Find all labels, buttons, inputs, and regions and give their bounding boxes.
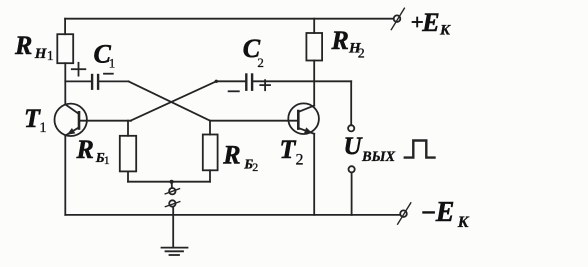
capacitor C1 <box>92 75 98 89</box>
node C2 bend junction <box>215 80 218 83</box>
resistor RH1 <box>57 34 73 63</box>
svg-text:2: 2 <box>358 46 365 61</box>
wire R_B2 bottom lead <box>209 170 211 181</box>
svg-text:2: 2 <box>296 152 304 169</box>
svg-text:1: 1 <box>109 55 116 70</box>
label RB2 <box>222 141 258 174</box>
transistor T1 <box>54 104 86 136</box>
wire T2 emitter down to bottom rail <box>313 134 315 215</box>
svg-text:2: 2 <box>257 55 264 70</box>
C2 polarity minus <box>229 90 239 92</box>
svg-text:K: K <box>439 23 451 39</box>
wire output lower terminal to bottom rail <box>351 173 353 215</box>
wire bias bar <box>128 181 210 183</box>
svg-text:U: U <box>344 133 364 160</box>
node bias junction <box>170 180 174 184</box>
svg-text:R: R <box>331 26 349 55</box>
svg-text:E: E <box>435 197 455 228</box>
C2 polarity plus <box>260 80 270 90</box>
label U out <box>344 133 396 165</box>
svg-text:R: R <box>14 31 32 60</box>
svg-text:K: K <box>457 214 470 231</box>
label RH2 <box>331 26 365 61</box>
label -Ek <box>421 197 470 231</box>
terminal output lower <box>349 166 355 172</box>
wire diagonal C1 to T2 base <box>129 81 210 120</box>
wire C1 right lead <box>99 80 128 82</box>
label T1 <box>24 104 47 136</box>
wire bias tap down <box>171 182 173 188</box>
terminal -Ek <box>400 210 407 217</box>
label RH1 <box>14 31 54 64</box>
wire C1 left lead <box>65 80 91 82</box>
transistor T2 <box>288 103 319 134</box>
pulse waveform icon <box>405 141 435 158</box>
wire R_B2 top lead <box>209 121 211 135</box>
svg-text:2: 2 <box>252 160 258 174</box>
wire R_H1 top lead <box>64 19 66 35</box>
label C1 <box>94 39 116 70</box>
capacitor C2 <box>246 75 252 90</box>
wire base rail right to T2 <box>210 120 298 122</box>
svg-text:R: R <box>222 141 240 170</box>
wire C2 left lead <box>216 80 245 82</box>
svg-text:R: R <box>76 135 94 164</box>
label C2 <box>243 34 264 70</box>
resistor RH2 <box>306 33 322 61</box>
terminal +Ek <box>394 15 401 22</box>
wire top +Ek rail <box>65 18 393 20</box>
C1 polarity minus <box>104 73 113 75</box>
wire diagonal C2 to T1 base <box>131 81 217 120</box>
label +Ek <box>413 8 451 39</box>
svg-text:T: T <box>280 135 297 164</box>
svg-text:1: 1 <box>104 153 110 167</box>
resistor RB1 <box>120 136 136 172</box>
terminal bias lower <box>169 200 175 206</box>
svg-text:E: E <box>421 8 439 37</box>
svg-text:1: 1 <box>39 120 47 136</box>
wire bottom -Ek rail <box>65 214 400 216</box>
wire R_B1 top lead <box>127 121 129 136</box>
wire T1 emitter down to bottom rail <box>64 136 66 215</box>
svg-text:1: 1 <box>47 49 54 64</box>
wire C2 right lead to output node <box>253 80 351 82</box>
wire R_H2 bottom to T2 collector <box>313 61 315 106</box>
resistor RB2 <box>203 135 218 171</box>
svg-text:−: − <box>421 198 437 227</box>
wire base rail left from T1 <box>79 120 131 122</box>
terminal bias upper <box>169 188 175 194</box>
terminal output upper <box>348 125 354 131</box>
C1 polarity plus <box>72 63 86 76</box>
wire R_B1 bottom lead <box>127 171 129 181</box>
wire R_H1 bottom to T1 collector <box>64 63 66 104</box>
wire output node down to terminal <box>350 81 352 125</box>
label RB1 <box>76 135 110 167</box>
ground <box>162 248 188 255</box>
label T2 <box>280 135 304 169</box>
svg-text:ВЫХ: ВЫХ <box>361 149 396 165</box>
svg-text:H: H <box>34 46 48 62</box>
wire bias lower terminal to ground <box>172 207 174 248</box>
wire R_H2 top lead <box>313 19 315 33</box>
